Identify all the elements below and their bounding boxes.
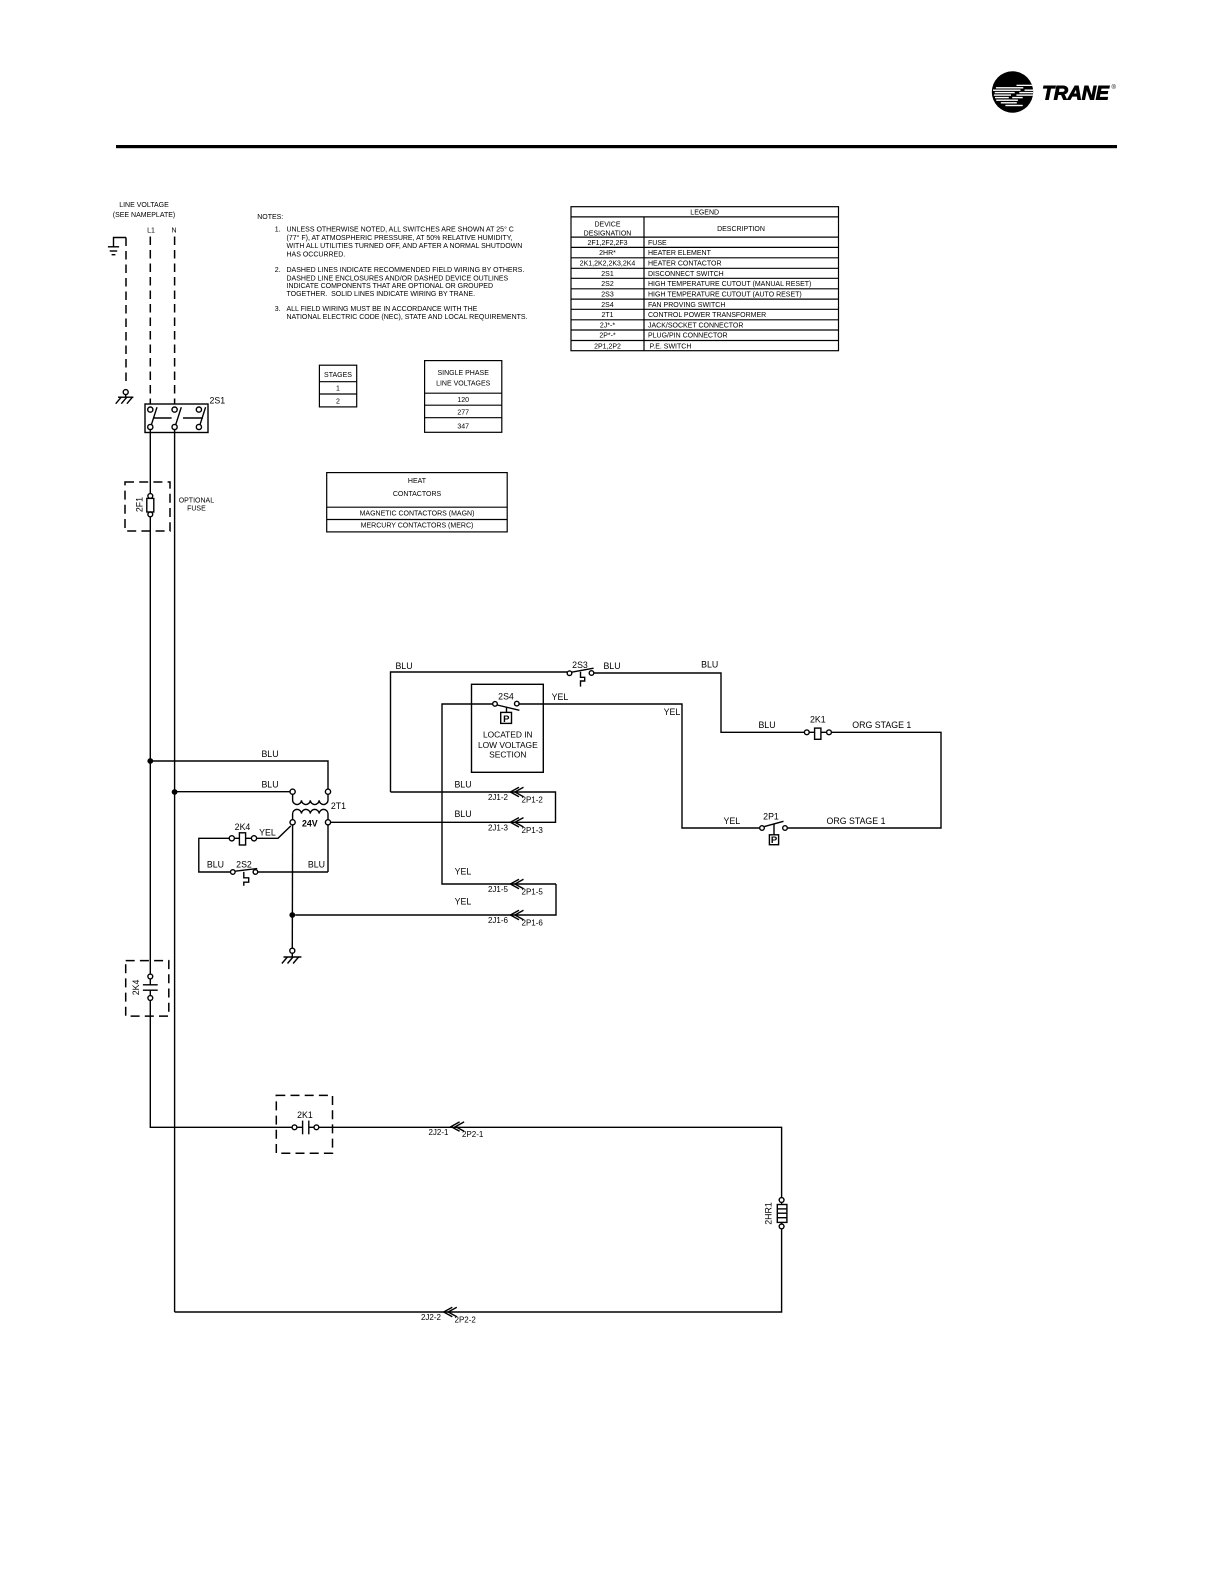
P.E. switch 2P1 <box>760 812 788 847</box>
wire ground dashed drop <box>125 238 127 386</box>
svg-text:(SEE NAMEPLATE): (SEE NAMEPLATE) <box>113 212 176 219</box>
svg-text:2S1: 2S1 <box>601 271 614 278</box>
wire BLU 2J1-2 row <box>331 779 556 822</box>
svg-text:2P2-1: 2P2-1 <box>462 1130 484 1139</box>
svg-text:2K1: 2K1 <box>810 715 826 725</box>
svg-text:2P1-5: 2P1-5 <box>522 887 544 896</box>
svg-text:2S3: 2S3 <box>572 660 588 670</box>
svg-text:L1: L1 <box>147 228 155 235</box>
svg-text:24V: 24V <box>302 818 318 828</box>
svg-text:LINE VOLTAGE: LINE VOLTAGE <box>119 202 169 209</box>
svg-text:BLU: BLU <box>454 809 471 819</box>
legend table <box>571 207 839 351</box>
svg-text:JACK/SOCKET CONNECTOR: JACK/SOCKET CONNECTOR <box>648 322 743 329</box>
svg-text:ALL FIELD WIRING MUST BE IN AC: ALL FIELD WIRING MUST BE IN ACCORDANCE W… <box>287 306 478 313</box>
wire YEL 2K4 to secondary left terminal <box>257 826 291 838</box>
svg-text:LEGEND: LEGEND <box>690 210 719 217</box>
svg-text:2HR*: 2HR* <box>599 250 616 257</box>
svg-text:DESIGNATION: DESIGNATION <box>584 230 632 237</box>
svg-text:DEVICE: DEVICE <box>594 222 620 229</box>
svg-text:LINE VOLTAGES: LINE VOLTAGES <box>436 380 491 387</box>
svg-text:FUSE: FUSE <box>187 505 206 512</box>
connector 2J1-3/2P1-3 <box>488 818 543 835</box>
heater element 2HR1 <box>764 1198 787 1229</box>
svg-text:2K1: 2K1 <box>297 1110 313 1120</box>
high temp cutout 2S3 <box>567 660 594 687</box>
svg-text:P.E. SWITCH: P.E. SWITCH <box>650 343 692 350</box>
svg-text:YEL: YEL <box>259 828 276 838</box>
svg-text:2F1,2F2,2F3: 2F1,2F2,2F3 <box>587 240 627 247</box>
Trane logo <box>992 71 1117 112</box>
svg-text:HEATER CONTACTOR: HEATER CONTACTOR <box>648 261 722 268</box>
svg-text:MERCURY CONTACTORS (MERC): MERCURY CONTACTORS (MERC) <box>361 523 474 530</box>
svg-text:UNLESS OTHERWISE NOTED, ALL SW: UNLESS OTHERWISE NOTED, ALL SWITCHES ARE… <box>287 226 514 234</box>
svg-text:YEL: YEL <box>455 896 472 906</box>
low voltage section box <box>472 684 544 772</box>
svg-text:2J1-6: 2J1-6 <box>488 916 509 925</box>
svg-text:2K1,2K2,2K3,2K4: 2K1,2K2,2K3,2K4 <box>580 261 636 268</box>
svg-text:2S1: 2S1 <box>210 396 226 406</box>
svg-text:120: 120 <box>457 397 469 404</box>
ground terminal with rake (above 2S1) <box>116 390 134 404</box>
svg-text:HEATER ELEMENT: HEATER ELEMENT <box>648 250 712 257</box>
svg-text:P: P <box>503 714 510 725</box>
svg-text:2J1-5: 2J1-5 <box>488 885 509 894</box>
notes text block <box>257 214 527 321</box>
svg-text:®: ® <box>1112 84 1117 91</box>
svg-text:LOW VOLTAGE: LOW VOLTAGE <box>478 740 538 750</box>
svg-text:YEL: YEL <box>455 867 472 877</box>
connector 2J1-5/2P1-5 <box>488 879 543 896</box>
optional fuse dashed enclosure <box>125 482 214 531</box>
svg-text:CONTROL POWER TRANSFORMER: CONTROL POWER TRANSFORMER <box>648 312 766 319</box>
svg-text:HIGH TEMPERATURE CUTOUT (MANUA: HIGH TEMPERATURE CUTOUT (MANUAL RESET) <box>648 281 811 288</box>
svg-text:HIGH TEMPERATURE CUTOUT (AUTO: HIGH TEMPERATURE CUTOUT (AUTO RESET) <box>648 292 802 299</box>
svg-text:HEAT: HEAT <box>408 478 427 485</box>
svg-text:YEL: YEL <box>723 816 740 826</box>
svg-text:(77° F), AT ATMOSPHERIC PRESSU: (77° F), AT ATMOSPHERIC PRESSURE, AT 50%… <box>287 234 513 242</box>
junction L1-primary <box>147 758 153 764</box>
svg-text:N: N <box>171 228 176 235</box>
wire L1 dashed drop <box>149 237 151 405</box>
connector 2J1-6/2P1-6 <box>488 910 543 927</box>
svg-text:2P1: 2P1 <box>763 812 779 822</box>
high temp cutout 2S2 <box>231 860 258 886</box>
svg-text:2P2-2: 2P2-2 <box>455 1316 477 1325</box>
junction N-primary <box>172 789 178 795</box>
svg-text:2J1-3: 2J1-3 <box>488 824 509 833</box>
svg-text:2.: 2. <box>275 267 281 274</box>
svg-text:STAGES: STAGES <box>324 372 352 379</box>
wire BLU from 2S3 to 2K1 coil <box>594 660 805 733</box>
contactor coil 2K4 <box>229 822 256 845</box>
svg-text:WITH ALL UTILITIES TURNED OFF,: WITH ALL UTILITIES TURNED OFF, AND AFTER… <box>287 243 523 250</box>
wire from heater back to N <box>175 1229 782 1312</box>
svg-text:2J2-2: 2J2-2 <box>421 1313 442 1322</box>
svg-text:DESCRIPTION: DESCRIPTION <box>717 226 765 233</box>
svg-text:1: 1 <box>336 386 340 393</box>
svg-text:BLU: BLU <box>308 860 325 870</box>
svg-text:LOCATED IN: LOCATED IN <box>483 729 533 739</box>
wire YEL 2J1-5 down to 2J1-6 line <box>295 884 556 915</box>
svg-text:1.: 1. <box>275 227 281 234</box>
svg-text:FUSE: FUSE <box>648 240 667 247</box>
wire L1 from 2S1 to fuse <box>149 430 151 494</box>
contactor contact 2K4 dashed enclosure <box>126 961 169 1017</box>
svg-text:FAN PROVING SWITCH: FAN PROVING SWITCH <box>648 302 725 309</box>
svg-text:BLU: BLU <box>701 660 718 670</box>
contactor contact 2K1 dashed enclosure <box>276 1095 332 1153</box>
svg-text:BLU: BLU <box>395 661 412 671</box>
svg-text:2K4: 2K4 <box>235 822 251 832</box>
wire BLU L1 to transformer primary right <box>150 749 328 789</box>
svg-text:2S2: 2S2 <box>236 860 252 870</box>
svg-text:SINGLE PHASE: SINGLE PHASE <box>438 370 490 377</box>
node N <box>171 228 176 235</box>
wire L1 from fuse down to junction <box>149 517 151 974</box>
stages table <box>319 365 356 407</box>
svg-text:DISCONNECT SWITCH: DISCONNECT SWITCH <box>648 271 724 278</box>
svg-text:TRANE: TRANE <box>1042 83 1110 105</box>
svg-text:347: 347 <box>457 424 469 431</box>
svg-text:NATIONAL ELECTRIC CODE (NEC),: NATIONAL ELECTRIC CODE (NEC), STATE AND … <box>287 314 528 321</box>
svg-text:MAGNETIC CONTACTORS (MAGN): MAGNETIC CONTACTORS (MAGN) <box>360 510 475 517</box>
svg-text:2P1-6: 2P1-6 <box>522 918 544 927</box>
svg-text:2P1-3: 2P1-3 <box>522 826 544 835</box>
svg-text:2F1: 2F1 <box>135 497 145 512</box>
svg-text:ORG STAGE 1: ORG STAGE 1 <box>852 720 911 730</box>
connector 2J1-2/2P1-2 <box>488 787 543 804</box>
svg-text:YEL: YEL <box>552 692 569 702</box>
wire YEL from 2P1 left to 2S4 <box>519 692 760 828</box>
wire secondary right terminal down to 2S2 row <box>327 825 329 872</box>
svg-text:BLU: BLU <box>261 749 278 759</box>
svg-text:BLU: BLU <box>261 780 278 790</box>
ground terminal with rake (transformer) <box>282 948 302 963</box>
connector 2J2-1/2P2-1 <box>428 1122 483 1139</box>
junction secondary-left / ground <box>289 912 295 918</box>
svg-text:P: P <box>771 835 778 846</box>
svg-text:2: 2 <box>336 398 340 405</box>
svg-text:2HR1: 2HR1 <box>764 1202 774 1225</box>
svg-text:SECTION: SECTION <box>489 749 526 759</box>
fan proving switch 2S4 <box>493 691 520 725</box>
header rule <box>116 145 1117 148</box>
svg-text:BLU: BLU <box>603 661 620 671</box>
svg-text:ORG STAGE 1: ORG STAGE 1 <box>827 816 886 826</box>
contactor coil 2K1 <box>804 715 831 740</box>
svg-text:2S4: 2S4 <box>498 691 514 701</box>
label LINE VOLTAGE (SEE NAMEPLATE) <box>113 202 176 219</box>
fuse 2F1 <box>135 494 154 517</box>
svg-text:2P1-2: 2P1-2 <box>522 796 544 805</box>
svg-text:2K4: 2K4 <box>131 979 141 995</box>
svg-text:DASHED LINE ENCLOSURES AND/OR: DASHED LINE ENCLOSURES AND/OR DASHED DEV… <box>287 275 509 282</box>
svg-text:277: 277 <box>457 409 469 416</box>
svg-text:2S2: 2S2 <box>601 281 614 288</box>
wire N dashed drop <box>174 237 176 405</box>
wire BLU N to transformer primary left <box>175 780 290 792</box>
disconnect switch 2S1 <box>145 396 225 433</box>
svg-text:YEL: YEL <box>664 707 681 717</box>
svg-text:CONTACTORS: CONTACTORS <box>393 491 442 498</box>
svg-text:2T1: 2T1 <box>601 312 613 319</box>
wire secondary left terminal down to ground <box>291 825 293 948</box>
svg-text:PLUG/PIN CONNECTOR: PLUG/PIN CONNECTOR <box>648 333 728 340</box>
wire BLU 2S2 left to 2K4 coil <box>199 838 231 872</box>
svg-text:DASHED LINES INDICATE RECOMMEN: DASHED LINES INDICATE RECOMMENDED FIELD … <box>287 267 525 274</box>
wire ORG STAGE 1 from 2K1 to 2P1 <box>787 720 941 828</box>
wire top BLU feed (2J1-2 loop) <box>391 661 568 792</box>
earth ground (top left) <box>108 238 126 255</box>
contactor contact 2K4 <box>131 974 158 1000</box>
svg-text:HAS OCCURRED.: HAS OCCURRED. <box>287 251 346 258</box>
wire BLU 2S2 right <box>258 860 328 872</box>
single phase line voltages table <box>425 361 502 433</box>
transformer 2T1 <box>290 789 346 828</box>
wire YEL 2S4 left to 2J1-5 loop <box>442 704 556 884</box>
svg-text:2T1: 2T1 <box>331 801 346 811</box>
svg-text:2J1-2: 2J1-2 <box>488 793 509 802</box>
heat contactors table <box>327 473 508 532</box>
svg-text:BLU: BLU <box>454 779 471 789</box>
contactor contact 2K1 <box>292 1110 319 1134</box>
svg-text:BLU: BLU <box>758 720 775 730</box>
svg-text:2J2-1: 2J2-1 <box>428 1128 449 1137</box>
svg-text:NOTES:: NOTES: <box>257 214 283 221</box>
svg-text:3.: 3. <box>275 306 281 313</box>
svg-text:2S3: 2S3 <box>601 292 614 299</box>
wire L1 from 2K4 contact to 2K1 contact <box>150 1000 292 1127</box>
connector 2J2-2/2P2-2 <box>421 1307 476 1324</box>
svg-text:2P*-*: 2P*-* <box>599 333 616 340</box>
wire N from 2S1 down <box>174 430 176 1312</box>
svg-text:BLU: BLU <box>207 860 224 870</box>
svg-text:OPTIONAL: OPTIONAL <box>179 497 215 504</box>
wire from 2K1 contact to heater <box>319 1127 782 1197</box>
svg-text:2J*-*: 2J*-* <box>600 322 615 329</box>
node L1 <box>147 228 155 235</box>
svg-text:2P1,2P2: 2P1,2P2 <box>594 343 621 350</box>
svg-text:INDICATE COMPONENTS THAT ARE O: INDICATE COMPONENTS THAT ARE OPTIONAL OR… <box>287 283 494 290</box>
svg-text:TOGETHER. SOLID LINES INDICAT: TOGETHER. SOLID LINES INDICATE WIRING BY… <box>287 291 476 298</box>
svg-text:2S4: 2S4 <box>601 302 614 309</box>
